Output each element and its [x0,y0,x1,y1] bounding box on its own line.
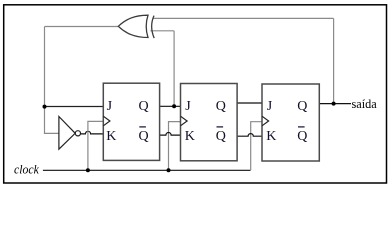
inverter bubble [75,131,80,136]
frame border [4,5,387,183]
svg-text:J: J [267,99,273,114]
wire: Q1 to J2 [160,105,181,107]
wire: Q2bar to K3 with hop over clock line [237,134,262,137]
svg-text:Q: Q [216,129,226,144]
wire: XOR output to left [45,26,119,28]
wire: Q3 to saida [319,103,351,105]
svg-text:K: K [106,129,116,144]
flip-flop FF2 box [181,84,238,161]
svg-text:J: J [107,99,113,114]
flip-flop FF1 box [103,83,159,160]
wire: clock branch to FF2 [169,122,181,171]
XOR gate input-side double arc [152,16,155,38]
wire: Q1bar to K2 with hop over clock line [160,133,181,136]
wire: inverter output to K1 with hop over clock line [81,131,104,134]
wire: clock branch to FF1 [88,121,103,170]
wire: XOR lower input vertical down to Q1 node [173,31,175,107]
flip-flop FF3 clock chevron [262,116,269,126]
svg-text:Q: Q [297,129,307,144]
XOR gate U5 body [118,15,148,37]
svg-text:saída: saída [352,97,378,111]
wire: node to J1 input [45,106,104,108]
svg-text:K: K [185,129,195,144]
wire: XOR lower input horizontal [150,30,174,32]
junction Q3 feedback node [332,102,336,106]
svg-text:J: J [185,99,191,114]
svg-text:Q: Q [297,99,307,114]
wire: clock branch to FF3 [251,122,262,171]
wire: feedback vertical from saida node up [333,18,335,103]
svg-text:Q: Q [216,99,226,114]
wire: node down to inverter input [45,107,59,134]
wire: Q2 to J3 [237,102,262,104]
junction feedback-J1 node [43,105,47,109]
wire: feedback vertical down to J1 node [44,27,46,107]
inverter U4 (NOT gate) [59,117,75,150]
svg-text:clock: clock [14,163,39,177]
svg-text:Q: Q [139,99,149,114]
svg-text:Q: Q [139,129,149,144]
flip-flop FF3 box [262,84,319,161]
wire: XOR upper input rail (from feedback node to XOR) [153,17,334,19]
svg-text:K: K [266,129,276,144]
junction clock-FF2 [167,168,171,172]
junction Q1 feedback node [172,104,176,108]
flip-flop FF2 clock chevron [181,116,188,126]
wire: clock rail [43,169,251,171]
junction clock-FF1 [86,168,90,172]
flip-flop FF1 clock chevron [103,116,110,126]
